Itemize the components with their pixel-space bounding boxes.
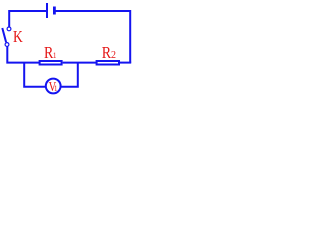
switch K bottom terminal <box>5 43 9 47</box>
svg-text:2: 2 <box>111 50 116 61</box>
battery long plate (+) <box>46 3 48 18</box>
svg-text:K: K <box>13 28 23 47</box>
wire battery to top-right corner and right side down <box>54 11 130 63</box>
wire switch down to middle wire, left part <box>7 46 39 62</box>
wire top-left (corner + top segment to battery) <box>9 11 47 27</box>
switch K blade <box>2 28 6 42</box>
voltmeter V1 <box>46 79 61 94</box>
svg-text:1: 1 <box>53 50 57 60</box>
wire R1 to R2 <box>63 62 97 64</box>
svg-text:1: 1 <box>54 83 58 93</box>
wire R2 to bottom-right corner <box>119 62 131 64</box>
wire voltmeter right to tap up <box>61 63 78 87</box>
resistor R2 <box>97 61 119 65</box>
battery short plate (-) <box>53 7 56 15</box>
switch K top terminal <box>7 27 11 31</box>
wire voltmeter left tap down and to circle <box>24 63 45 87</box>
resistor R1 <box>40 61 62 65</box>
